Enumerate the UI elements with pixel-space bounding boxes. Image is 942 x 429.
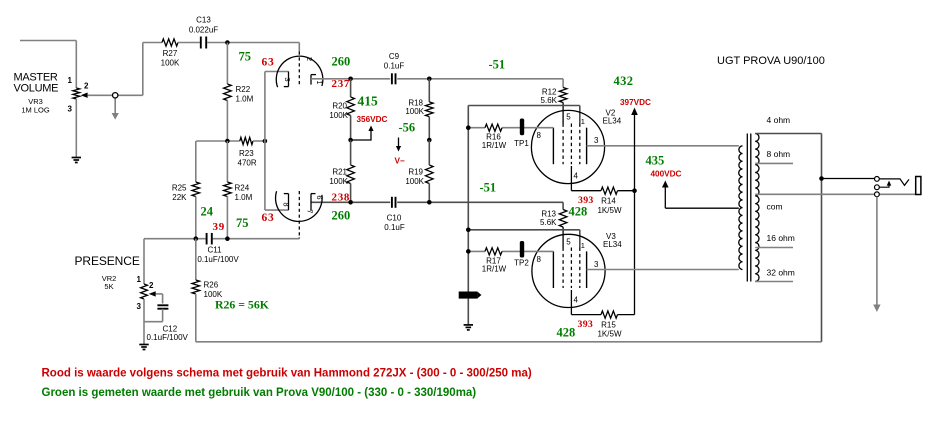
wire screen V3 to R15 <box>570 290 572 315</box>
svg-text:1: 1 <box>137 275 142 284</box>
wire pin8 V3 to rail <box>468 250 485 252</box>
cathode V1b pin8 <box>288 194 290 211</box>
svg-text:1: 1 <box>68 76 73 85</box>
svg-text:Groen is gemeten waarde met ge: Groen is gemeten waarde met gebruik van … <box>42 387 477 399</box>
ground cathode rail <box>464 324 473 326</box>
svg-text:3: 3 <box>594 260 599 269</box>
pentode V2 EL34 <box>531 110 604 183</box>
svg-text:32 ohm: 32 ohm <box>767 268 795 278</box>
svg-text:TP1: TP1 <box>514 139 529 148</box>
resistor R12 5.6K (grid stopper V2) <box>562 79 564 88</box>
grid V3 dashed pin5 <box>562 248 564 289</box>
svg-text:1: 1 <box>315 80 324 84</box>
arrow to V- node <box>398 138 400 147</box>
svg-text:2: 2 <box>84 82 89 91</box>
svg-text:63: 63 <box>262 56 275 68</box>
triode V1a (phase inverter upper) <box>276 56 323 87</box>
capacitor cathode bypass (electrolytic, solid) <box>459 292 478 299</box>
resistor R23 470R <box>240 137 253 144</box>
wire plate V1a net <box>311 78 390 80</box>
wire tail network node <box>196 140 240 142</box>
test point TP1 <box>520 119 524 136</box>
cathode V3 <box>552 251 554 288</box>
svg-text:432: 432 <box>614 74 634 88</box>
svg-text:3: 3 <box>283 77 292 81</box>
wire feedback bus bottom <box>196 341 822 343</box>
potentiometer VR3 1M LOG (master volume) <box>73 88 80 99</box>
svg-text:Rood is waarde volgens schema: Rood is waarde volgens schema met gebrui… <box>42 368 532 380</box>
wire plate V1b net <box>311 201 390 203</box>
svg-text:EL34: EL34 <box>603 117 622 126</box>
wire suppressor tie V3 <box>468 229 580 231</box>
svg-text:EL34: EL34 <box>603 240 622 249</box>
wire C13 to grid of V1a <box>207 42 299 44</box>
node wiper junction <box>113 93 118 98</box>
svg-text:100K: 100K <box>161 59 180 68</box>
wire suppressor tie V2 <box>468 105 580 107</box>
wire to jack tip <box>822 178 875 180</box>
transformer T1 core <box>746 134 748 282</box>
svg-text:com: com <box>767 202 783 212</box>
capacitor C13 0.022uF <box>200 37 202 49</box>
svg-text:470R: 470R <box>238 159 257 168</box>
tap 32 ohm <box>755 281 793 283</box>
svg-text:39: 39 <box>213 221 225 233</box>
svg-text:7: 7 <box>305 209 314 213</box>
grid V1b pin7 dashed <box>298 191 300 239</box>
svg-text:R26 = 56K: R26 = 56K <box>215 298 270 312</box>
node output to jack <box>819 176 824 181</box>
wiper arrow VR2 <box>149 291 156 296</box>
svg-text:1.0M: 1.0M <box>236 95 254 104</box>
svg-text:0.1uF: 0.1uF <box>384 223 405 232</box>
svg-text:R26: R26 <box>204 281 219 290</box>
wire screen V2 to R14 <box>570 166 572 191</box>
ground VR3 <box>72 157 81 159</box>
svg-text:428: 428 <box>557 326 576 340</box>
svg-text:6: 6 <box>315 195 324 199</box>
svg-text:-51: -51 <box>489 58 506 72</box>
wire plate V2 to transformer <box>587 145 739 147</box>
svg-text:393: 393 <box>578 319 594 330</box>
resistor R27 100K <box>162 39 178 46</box>
resistor R26 100K (feedback) <box>195 239 197 280</box>
capacitor C11 0.1uF/100V <box>206 233 208 245</box>
ground VR2 <box>139 344 148 346</box>
svg-text:TP2: TP2 <box>514 259 529 268</box>
resistor R17 1R/1W <box>485 248 502 255</box>
wire jack sleeve down (chassis arrow) <box>876 197 878 305</box>
svg-text:-51: -51 <box>480 181 497 195</box>
svg-text:428: 428 <box>569 205 588 219</box>
svg-text:R27: R27 <box>163 49 178 58</box>
svg-text:100K: 100K <box>405 177 424 186</box>
suppressor V2 dashed pin1 <box>579 124 581 165</box>
grid V1a pin2 dashed <box>298 52 300 85</box>
svg-text:1: 1 <box>581 241 585 250</box>
resistor R16 1R/1W <box>485 124 502 131</box>
svg-text:R23: R23 <box>239 149 254 158</box>
svg-text:435: 435 <box>646 154 665 168</box>
svg-text:R21: R21 <box>332 168 347 177</box>
svg-text:100K: 100K <box>405 107 424 116</box>
svg-text:C11: C11 <box>207 246 222 255</box>
wire pin8 V2 to rail <box>468 127 485 129</box>
svg-text:400VDC: 400VDC <box>651 170 682 179</box>
resistor R22 1.0M <box>226 43 228 85</box>
wire input to master volume <box>20 40 76 42</box>
svg-text:238: 238 <box>332 191 351 203</box>
svg-text:C10: C10 <box>387 214 402 223</box>
svg-text:R20: R20 <box>332 102 347 111</box>
svg-text:100K: 100K <box>329 111 348 120</box>
svg-text:356VDC: 356VDC <box>357 115 388 124</box>
svg-text:260: 260 <box>332 209 351 223</box>
svg-text:0.1uF/100V: 0.1uF/100V <box>147 333 189 342</box>
svg-text:C9: C9 <box>389 52 400 61</box>
svg-text:5.6K: 5.6K <box>540 218 557 227</box>
svg-text:63: 63 <box>262 212 275 224</box>
svg-text:5: 5 <box>566 238 571 247</box>
svg-text:C13: C13 <box>196 16 211 25</box>
resistor R20 100K <box>350 79 352 97</box>
svg-text:1R/1W: 1R/1W <box>482 265 507 274</box>
resistor R24 1.0M <box>226 141 228 182</box>
wire wiper to R27 <box>142 43 144 96</box>
svg-text:1K/5W: 1K/5W <box>597 206 621 215</box>
triode V1b (phase inverter lower) <box>276 191 323 221</box>
wire secondary top tap 4 ohm <box>755 133 821 135</box>
resistor R25 22K <box>195 141 197 182</box>
svg-text:4: 4 <box>574 296 579 305</box>
pentode V3 EL34 <box>532 234 605 307</box>
wire cathode rail V1 <box>264 72 266 211</box>
resistor R13 5.6K (grid stopper V3) <box>562 202 564 209</box>
svg-text:1K/5W: 1K/5W <box>597 330 621 339</box>
wiper arrow VR3 <box>81 93 88 98</box>
cathode V1a pin3 <box>288 72 290 87</box>
svg-text:75: 75 <box>236 216 249 230</box>
svg-text:0.022uF: 0.022uF <box>189 26 218 35</box>
svg-text:0.1uF/100V: 0.1uF/100V <box>197 255 239 264</box>
transformer T1 primary winding <box>739 146 743 270</box>
svg-text:1M LOG: 1M LOG <box>21 106 50 115</box>
potentiometer VR2 5K (presence) <box>143 239 145 284</box>
cathode V2 <box>552 128 554 165</box>
svg-text:5: 5 <box>566 113 571 122</box>
svg-text:1R/1W: 1R/1W <box>482 141 507 150</box>
resistor R21 100K <box>347 165 355 184</box>
svg-text:237: 237 <box>332 78 351 90</box>
svg-text:8: 8 <box>281 202 290 206</box>
svg-text:3: 3 <box>68 105 73 114</box>
svg-text:-56: -56 <box>399 121 416 135</box>
svg-text:8 ohm: 8 ohm <box>767 149 791 159</box>
wire center tap B+ <box>665 207 739 209</box>
svg-text:260: 260 <box>332 55 351 69</box>
svg-text:V−: V− <box>395 157 405 166</box>
jack J1 speaker output <box>875 177 880 182</box>
suppressor V3 dashed pin1 <box>579 248 581 289</box>
capacitor C10 0.1uF <box>391 197 393 208</box>
svg-text:2: 2 <box>149 281 154 290</box>
svg-text:4: 4 <box>574 172 579 181</box>
wire plate V3 to transformer <box>587 269 739 271</box>
plate V1a pin1 <box>310 75 312 85</box>
svg-text:R15: R15 <box>601 321 616 330</box>
resistor R15 1K/5W <box>601 311 618 318</box>
svg-text:VOLUME: VOLUME <box>14 83 59 95</box>
tap com <box>755 193 916 195</box>
svg-text:1.0M: 1.0M <box>235 193 253 202</box>
wire presence network <box>144 238 206 240</box>
svg-text:16 ohm: 16 ohm <box>767 233 795 243</box>
plate V3 pin3 <box>586 251 588 288</box>
svg-text:2: 2 <box>305 57 314 61</box>
svg-text:5.6K: 5.6K <box>541 96 558 105</box>
ground ref VR3 wiper (open arrow) <box>114 98 116 114</box>
test point TP2 <box>520 241 524 258</box>
svg-text:R14: R14 <box>601 197 616 206</box>
arrow measurement 356VDC <box>351 131 371 141</box>
svg-text:22K: 22K <box>172 193 187 202</box>
svg-text:3: 3 <box>137 302 142 311</box>
resistor R14 1K/5W <box>601 187 618 194</box>
svg-text:R19: R19 <box>408 168 423 177</box>
svg-text:8: 8 <box>537 131 542 140</box>
svg-text:75: 75 <box>239 50 252 64</box>
svg-text:415: 415 <box>358 94 379 109</box>
wire cathode rail EL34s <box>467 106 469 292</box>
plate V2 pin3 <box>586 128 588 165</box>
svg-text:UGT PROVA U90/100: UGT PROVA U90/100 <box>717 55 825 67</box>
svg-text:3: 3 <box>594 136 599 145</box>
svg-text:8: 8 <box>537 255 542 264</box>
capacitor C9 0.1uF <box>391 73 393 84</box>
capacitor C12 0.1uF/100V <box>157 304 168 306</box>
svg-text:4 ohm: 4 ohm <box>767 115 791 125</box>
svg-text:397VDC: 397VDC <box>620 98 651 107</box>
svg-text:R24: R24 <box>235 184 250 193</box>
svg-text:5K: 5K <box>104 282 113 291</box>
tap 16 ohm <box>755 247 793 249</box>
screen V3 dashed pin4 <box>570 248 572 289</box>
svg-text:0.1uF: 0.1uF <box>384 62 405 71</box>
svg-text:R22: R22 <box>236 85 251 94</box>
svg-text:1: 1 <box>581 117 585 126</box>
svg-text:PRESENCE: PRESENCE <box>75 254 140 268</box>
resistor R19 100K <box>426 165 434 184</box>
svg-text:24: 24 <box>201 205 214 219</box>
svg-text:R25: R25 <box>172 184 187 193</box>
svg-text:100K: 100K <box>329 177 348 186</box>
resistor R18 100K <box>428 79 430 102</box>
screen V2 dashed pin4 <box>570 124 572 165</box>
grid V2 dashed pin5 <box>562 124 564 165</box>
plate V1b pin6 <box>310 194 312 211</box>
transformer T1 secondary winding <box>755 134 759 282</box>
tap 8 ohm <box>755 162 793 164</box>
